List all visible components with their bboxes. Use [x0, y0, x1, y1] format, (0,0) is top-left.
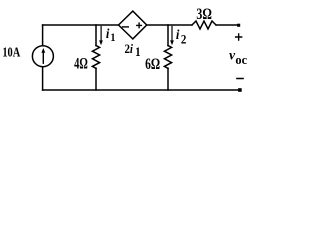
current source IS arrow [41, 48, 45, 64]
svg-text:i: i [106, 26, 110, 42]
label i2 [176, 26, 187, 46]
current arrow i2 [170, 26, 174, 46]
wire left branch lower [42, 67, 44, 90]
label minus terminal [236, 78, 244, 80]
label 2i1 [125, 42, 141, 59]
wire bottom rail [43, 89, 239, 91]
wire 4ohm branch lower [95, 68, 97, 90]
resistor R1 4ohm zigzag [92, 46, 99, 69]
node terminal b dot [238, 88, 242, 92]
svg-text:oc: oc [235, 53, 247, 67]
wire 4ohm branch upper [95, 25, 97, 46]
svg-text:3Ω: 3Ω [196, 5, 211, 23]
node terminal a dot [237, 24, 240, 27]
label 6ohm [145, 55, 160, 73]
label plus terminal [235, 33, 243, 41]
wire 6ohm branch upper [167, 25, 169, 46]
wire top-middle segment [147, 24, 192, 26]
svg-text:4Ω: 4Ω [74, 54, 88, 72]
label voc [229, 48, 247, 67]
svg-text:2: 2 [181, 33, 187, 47]
svg-text:6Ω: 6Ω [145, 55, 160, 73]
current arrow i1 [99, 26, 103, 46]
dependent source D1 diamond [119, 11, 147, 39]
label minus inside diamond [122, 26, 129, 28]
label i1 [106, 26, 116, 45]
resistor R3 3ohm zigzag [192, 21, 216, 29]
label 4ohm [74, 54, 88, 72]
label plus inside diamond [136, 22, 142, 28]
svg-text:10A: 10A [2, 44, 20, 60]
current source IS 10A circle [32, 46, 53, 67]
svg-text:1: 1 [110, 32, 115, 45]
wire top-right segment [216, 24, 237, 26]
svg-text:i: i [176, 26, 180, 42]
resistor R2 6ohm zigzag [164, 46, 171, 69]
svg-text:i: i [130, 42, 134, 56]
svg-text:1: 1 [135, 46, 141, 60]
wire left branch upper [42, 25, 44, 46]
wire top-left segment [43, 24, 118, 26]
wire 6ohm branch lower [167, 68, 169, 90]
label 10A [2, 44, 20, 60]
label 3ohm [196, 5, 211, 23]
